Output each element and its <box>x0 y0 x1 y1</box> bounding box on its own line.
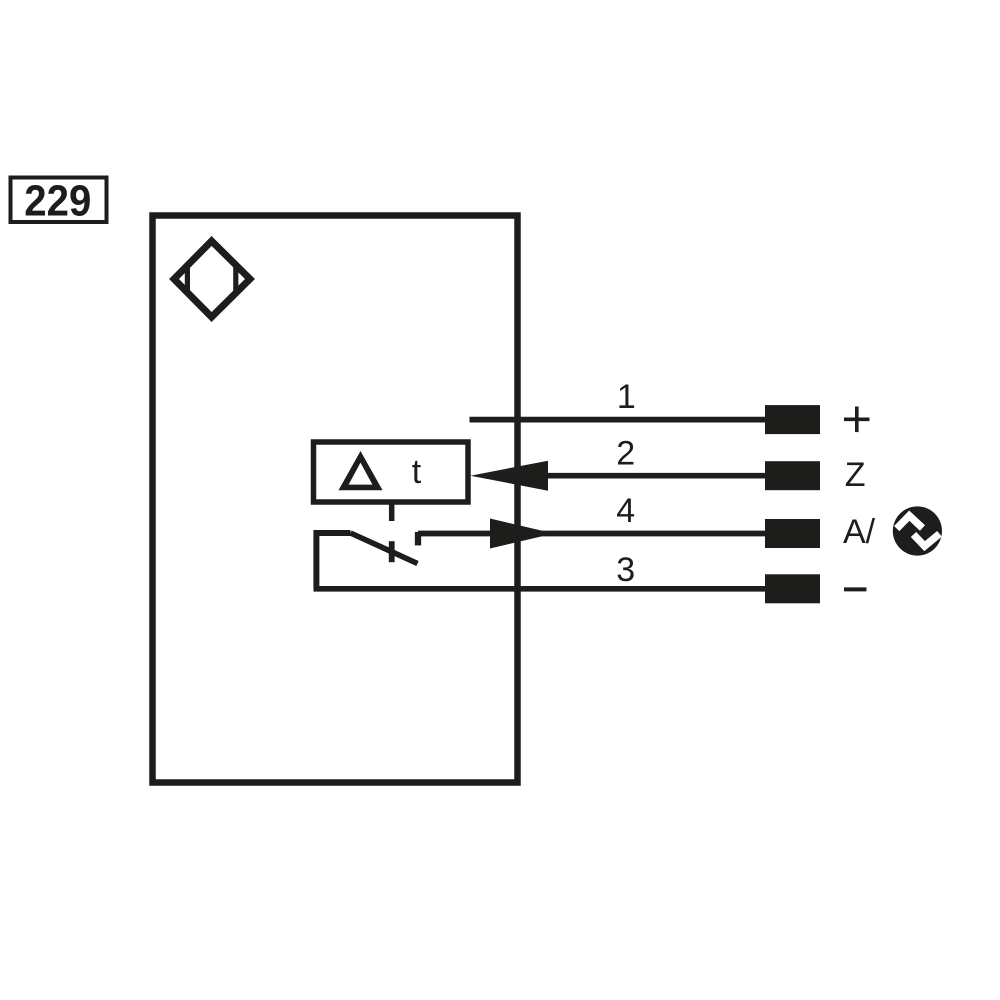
switch fixed contact tick <box>415 532 421 545</box>
terminal 4 <box>765 519 820 548</box>
label minus (terminal 3) <box>844 587 867 591</box>
label + (terminal 1) <box>844 407 870 433</box>
terminal 1 <box>765 405 820 434</box>
svg-text:2: 2 <box>616 435 635 473</box>
svg-text:t: t <box>412 453 422 491</box>
terminal 2 <box>765 461 820 490</box>
arrowhead into timer (wire 2) <box>470 461 548 491</box>
svg-text:4: 4 <box>616 492 635 530</box>
delta symbol inside timer box <box>339 451 383 490</box>
wire 1 <box>470 417 767 423</box>
svg-text:A/: A/ <box>843 513 876 551</box>
svg-text:229: 229 <box>24 177 91 226</box>
mechanical link stub from timer <box>389 503 395 521</box>
sensor body outline <box>153 216 518 783</box>
switch S1 left lead and down leg <box>316 533 350 589</box>
svg-text:3: 3 <box>616 551 635 589</box>
svg-text:1: 1 <box>617 378 636 416</box>
wire 2 <box>546 473 766 479</box>
arrowhead out (wire 4) <box>490 519 554 549</box>
wire 3 <box>314 586 767 592</box>
switch S1 blade <box>351 533 418 564</box>
mechanical link crossbar on blade <box>389 541 395 562</box>
figure number box 229 <box>11 177 107 226</box>
wire 4 <box>418 531 766 537</box>
changeover contact icon <box>893 506 942 555</box>
terminal 3 <box>765 574 820 603</box>
svg-text:Z: Z <box>845 456 866 494</box>
proximity sensor symbol (diamond) <box>174 241 250 317</box>
timer box U1 <box>314 442 469 502</box>
